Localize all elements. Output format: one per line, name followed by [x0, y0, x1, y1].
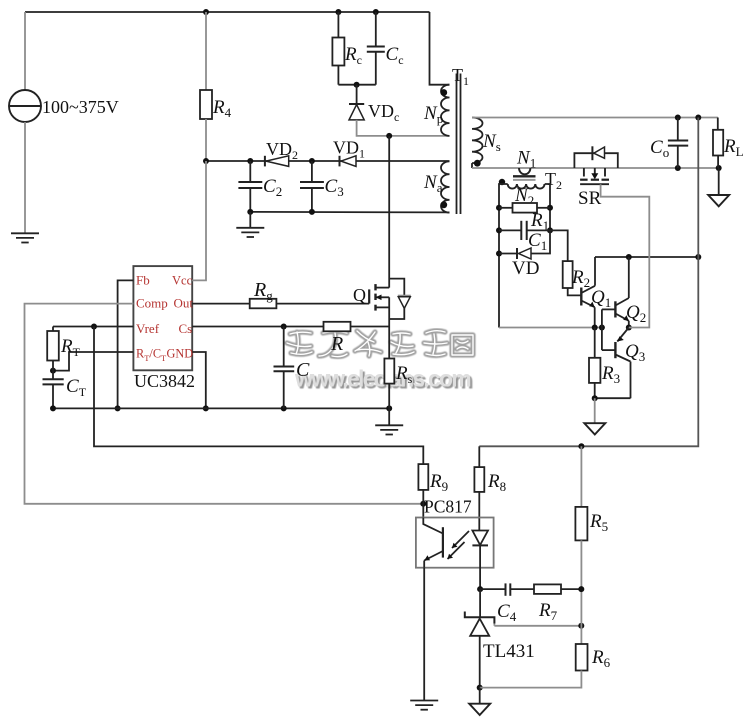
svg-text:Comp: Comp	[136, 296, 168, 311]
T1 core	[456, 74, 458, 215]
svg-text:R: R	[330, 333, 343, 355]
wire: Vref to RT and R9	[53, 326, 133, 328]
wire: output + rail (gray)	[472, 117, 718, 119]
capacitor C1	[499, 229, 521, 231]
svg-text:100~375V: 100~375V	[42, 97, 119, 117]
resistor R5	[580, 446, 582, 507]
winding Np	[441, 85, 450, 136]
wire: aux bottom rail y=211.9	[250, 211, 449, 214]
svg-text:Vref: Vref	[136, 321, 160, 336]
opto phototransistor	[423, 518, 443, 534]
wire: TL431 ref to divider (gray)	[493, 624, 495, 626]
wire: Vcc pin up to aux supply (gray)	[192, 161, 206, 280]
voltage source V1 100~375V	[24, 12, 26, 90]
ground symbol main rail	[388, 408, 390, 425]
capacitor C (sense filter)	[283, 327, 285, 367]
opto light arrows	[452, 531, 469, 548]
svg-text:TL431: TL431	[483, 641, 535, 662]
svg-text:Cs: Cs	[179, 321, 193, 336]
svg-text:Fb: Fb	[136, 272, 150, 287]
resistor R (sense filter)	[324, 322, 351, 332]
watermark 电子发烧友网 (stylized gray strokes)	[287, 331, 473, 357]
capacitor Co	[677, 118, 679, 141]
wire: Fb to ground rail	[118, 280, 134, 408]
svg-text:UC3842: UC3842	[134, 371, 195, 391]
wire: rail drop to Np top	[430, 12, 450, 85]
ground below source	[11, 233, 39, 242]
svg-text:Vcc: Vcc	[172, 273, 193, 287]
capacitor C4	[480, 588, 505, 590]
svg-text:C: C	[296, 359, 310, 381]
winding N1 of T2	[519, 168, 530, 174]
capacitor C3	[311, 161, 313, 182]
resistor R9	[418, 464, 428, 490]
diode VD2	[264, 156, 266, 167]
diode VD1	[339, 156, 341, 167]
svg-text:www.elecians.com: www.elecians.com	[294, 366, 471, 392]
MOSFET SR body diode loop	[574, 153, 617, 168]
shunt regulator TL431	[479, 589, 481, 617]
wire: Rc/Cc bottom link	[338, 84, 375, 86]
wire: Cs row	[192, 326, 323, 328]
ground arrow below R3	[594, 398, 596, 423]
wire: N2 right rail	[545, 184, 550, 230]
resistor R4	[205, 12, 207, 90]
wire: primary ground rail y=408.4	[53, 407, 389, 409]
transistor Q3	[614, 342, 616, 358]
wire: GND pin to ground rail	[192, 352, 206, 408]
diode VD	[499, 253, 517, 255]
T2 core	[513, 175, 536, 177]
wire: opto emitter to ground	[423, 568, 425, 701]
diode VDc	[356, 85, 358, 104]
resistor R8	[478, 446, 480, 467]
winding N2 of T2	[508, 184, 545, 189]
transistor Q1	[580, 288, 582, 306]
wire: Q2/Q3 base link vertical	[601, 309, 603, 350]
resistor RT	[52, 327, 54, 332]
resistor Rs	[384, 359, 394, 384]
wire: VDc anode to Np bottom (gray)	[357, 120, 450, 136]
body diode of Q	[389, 279, 404, 319]
transistor Q2	[614, 301, 616, 317]
wire: N2 left rail	[499, 184, 508, 328]
resistor R3	[594, 328, 596, 358]
capacitor CT	[52, 371, 54, 380]
wire: Q1/Q2 collector rail y=257	[595, 256, 698, 258]
resistor Rc	[337, 12, 339, 38]
ground below C2	[249, 212, 251, 228]
wire: output return rail (gray)	[472, 167, 719, 169]
svg-text:Out: Out	[174, 296, 194, 311]
MOSFET SR channel	[583, 168, 585, 177]
winding Ns	[472, 117, 483, 163]
wire: base tie rail (gray) from VD net	[499, 327, 602, 329]
winding Na	[441, 161, 450, 212]
capacitor C2	[249, 161, 251, 182]
resistor R2	[563, 261, 573, 288]
svg-text:SR: SR	[578, 188, 602, 209]
svg-text:VD: VD	[512, 258, 539, 279]
wire: SR gate to driver (gray)	[601, 184, 650, 327]
resistor RL	[717, 118, 719, 130]
svg-text:Q: Q	[353, 285, 366, 305]
svg-text:PC817: PC817	[424, 497, 472, 517]
wire: Comp to opto collector (gray loop)	[25, 304, 424, 504]
resistor R6	[576, 644, 588, 671]
op-amp U1 UC3842 box	[133, 266, 192, 370]
wire: Vcc aux rail y=161	[206, 160, 450, 162]
wire: RT/CT pin	[53, 352, 133, 371]
wire: +Vo sense drop x=698.3	[479, 118, 698, 447]
transistor Q (main MOSFET)	[388, 136, 390, 288]
capacitor Cc	[375, 12, 377, 47]
resistor Rg	[192, 303, 250, 305]
wire: top HV rail	[25, 11, 430, 13]
svg-text:GND: GND	[167, 347, 194, 361]
resistor R1	[499, 207, 513, 209]
opto LED	[472, 531, 488, 546]
ground arrow below TL431	[479, 688, 481, 704]
resistor R7	[534, 584, 561, 594]
node: junction dots on HV rail	[203, 9, 209, 15]
wire: R2 to Q1 base	[568, 288, 582, 295]
wire: link to R2	[550, 230, 568, 261]
